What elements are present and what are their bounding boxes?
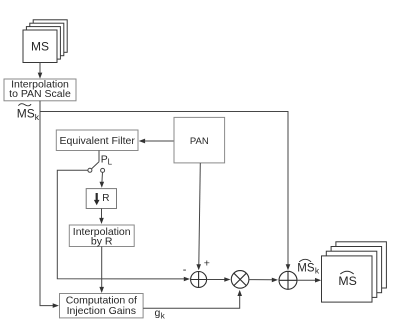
- switch P_L: [88, 151, 105, 173]
- svg-text:R: R: [102, 193, 109, 204]
- box: Computation of Injection Gains: [60, 294, 144, 318]
- wire: sum 1 to multiplier: [207, 277, 231, 282]
- svg-text:MS: MS: [338, 274, 356, 288]
- output MS image stack: [322, 242, 387, 302]
- svg-text:MS: MS: [17, 106, 35, 120]
- node: sum 1 (difference): [191, 272, 207, 288]
- svg-text:MS: MS: [297, 262, 315, 274]
- svg-text:to PAN Scale: to PAN Scale: [9, 88, 71, 100]
- wire: interpolation box down then right into computation box: [40, 101, 59, 308]
- box: Equivalent Filter: [56, 130, 138, 151]
- wire: switch left throw, left and down and right into sum node 1 (minus input): [57, 170, 190, 281]
- svg-text:k: k: [315, 265, 320, 275]
- wire: MS~k bus right then down into sum node 2: [40, 112, 290, 271]
- box: Interpolation to PAN Scale: [4, 79, 76, 101]
- input MS image stack: [23, 20, 67, 63]
- svg-text:Equivalent Filter: Equivalent Filter: [60, 135, 136, 147]
- wire: MS stack down to interpolation box: [38, 63, 43, 79]
- label P_L: [101, 154, 113, 167]
- svg-text:-: -: [183, 264, 187, 276]
- wire: sum 2 to output stack: [297, 278, 321, 283]
- svg-text:Injection Gains: Injection Gains: [67, 305, 136, 317]
- wire: switch right throw down into decimation box: [100, 172, 105, 187]
- wire: PAN down to sum node 1 (plus input): [196, 163, 201, 270]
- wire: PAN to Equivalent Filter: [139, 139, 174, 144]
- node: multiplier: [231, 271, 249, 289]
- svg-text:L: L: [108, 158, 113, 167]
- svg-text:k: k: [35, 112, 40, 122]
- wire: multiplier to sum 2: [249, 278, 278, 283]
- box: decimation by R: [86, 189, 116, 209]
- svg-text:+: +: [204, 258, 210, 270]
- label MS~k (interpolated MS): [17, 104, 40, 122]
- svg-text:MS: MS: [31, 40, 49, 54]
- box: PAN: [174, 117, 225, 162]
- wire: injection gains g_k right then up into multiplier: [143, 290, 242, 308]
- svg-text:by R: by R: [91, 236, 113, 248]
- node: sum 2: [279, 271, 297, 289]
- svg-text:PAN: PAN: [190, 136, 209, 147]
- box: Interpolation by R: [69, 225, 134, 248]
- wire: interpolation-by-R down into computation box: [99, 247, 104, 294]
- label g_k: [155, 307, 166, 321]
- wire: decimation box down to interpolation-by-R box: [99, 209, 104, 225]
- label MS^k (sharpened band): [297, 259, 320, 275]
